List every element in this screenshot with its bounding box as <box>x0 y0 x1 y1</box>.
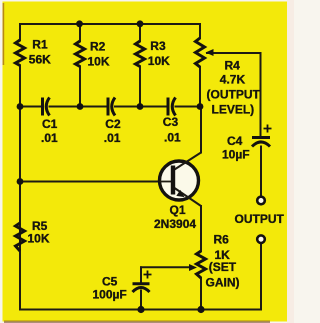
transistor Q1 <box>160 153 202 207</box>
wire base lead <box>20 181 171 183</box>
potentiometer R4 <box>196 38 205 67</box>
svg-text:LEVEL): LEVEL) <box>212 103 255 117</box>
wire R4 wiper <box>207 53 261 138</box>
wire emitter lead <box>200 206 202 251</box>
svg-text:(SET: (SET <box>209 260 237 274</box>
resistor R3 <box>136 41 145 67</box>
svg-text:Q1: Q1 <box>170 203 186 217</box>
arrow R4 wiper <box>206 49 214 56</box>
wire bottom rail <box>20 244 261 310</box>
resistor R5 <box>16 223 25 251</box>
svg-text:.01: .01 <box>104 131 121 145</box>
svg-text:56K: 56K <box>29 53 51 67</box>
capacitor C2 <box>108 98 115 116</box>
wire mid rail segment 3 <box>115 106 167 108</box>
svg-text:GAIN): GAIN) <box>206 276 240 290</box>
wire left column upper <box>19 24 21 40</box>
capacitor C5 <box>133 284 150 292</box>
node top rail / R3 <box>137 20 144 27</box>
wire mid rail segment 2 <box>50 106 108 108</box>
svg-text:100µF: 100µF <box>93 288 127 302</box>
wire R4 bottom lead <box>199 67 201 107</box>
wire R6 bottom lead <box>200 278 202 310</box>
wire mid rail segment 1 <box>20 106 42 108</box>
svg-text:R6: R6 <box>214 233 230 247</box>
wire R2 top lead <box>79 24 81 41</box>
wire R2 bottom lead <box>79 67 81 107</box>
svg-text:R2: R2 <box>90 40 106 54</box>
svg-text:.01: .01 <box>164 131 181 145</box>
svg-text:C4: C4 <box>227 134 243 148</box>
wire top rail <box>20 23 200 25</box>
svg-text:2N3904: 2N3904 <box>154 217 196 231</box>
svg-text:C3: C3 <box>163 115 179 129</box>
arrow R6 wiper <box>189 264 197 271</box>
svg-text:C5: C5 <box>102 275 118 289</box>
left maroon sliver <box>3 3 5 65</box>
wire R4 top lead <box>199 24 201 38</box>
wire left column lower <box>19 66 21 310</box>
svg-text:10K: 10K <box>148 54 170 68</box>
capacitor C1 <box>43 98 50 116</box>
wire collector lead <box>200 107 202 153</box>
svg-text:10K: 10K <box>88 55 110 69</box>
node mid rail / R3 <box>137 103 144 110</box>
wire C5 to R6 wiper <box>141 266 193 268</box>
wire C5 bottom lead <box>140 291 142 310</box>
svg-text:OUTPUT: OUTPUT <box>235 212 285 226</box>
terminal output top <box>257 197 265 205</box>
svg-text:R4: R4 <box>225 58 241 72</box>
wire R3 bottom lead <box>139 67 141 107</box>
node bottom rail / R6 <box>197 306 204 313</box>
svg-text:10µF: 10µF <box>222 147 250 161</box>
node mid rail / R4 collector <box>197 103 204 110</box>
node mid rail left <box>17 103 24 110</box>
resistor R1 <box>16 40 25 66</box>
node mid rail / R2 <box>77 103 84 110</box>
svg-text:.01: .01 <box>41 131 58 145</box>
node top rail / R2 <box>76 20 83 27</box>
capacitor C4 <box>252 138 270 147</box>
svg-text:C1: C1 <box>42 117 58 131</box>
svg-text:4.7K: 4.7K <box>220 73 246 87</box>
svg-text:10K: 10K <box>28 232 50 246</box>
svg-text:(OUTPUT: (OUTPUT <box>207 88 261 102</box>
right pale edge <box>287 0 294 323</box>
wire mid rail segment 4 <box>176 106 201 108</box>
wire C5 top lead <box>140 267 142 283</box>
wire R3 top lead <box>139 24 141 41</box>
plus sign C5 <box>144 271 152 279</box>
terminal output bottom <box>257 235 265 243</box>
node base junction <box>17 178 24 185</box>
svg-text:R3: R3 <box>150 39 166 53</box>
bottom maroon edge <box>4 321 270 323</box>
resistor R2 <box>76 41 85 67</box>
node bottom rail / C5 <box>137 306 144 313</box>
capacitor C3 <box>168 98 176 116</box>
plus sign C4 <box>264 125 272 133</box>
potentiometer R6 <box>197 251 206 278</box>
svg-text:C2: C2 <box>105 117 121 131</box>
wire C4 to output <box>260 147 262 197</box>
svg-text:R1: R1 <box>32 38 48 52</box>
